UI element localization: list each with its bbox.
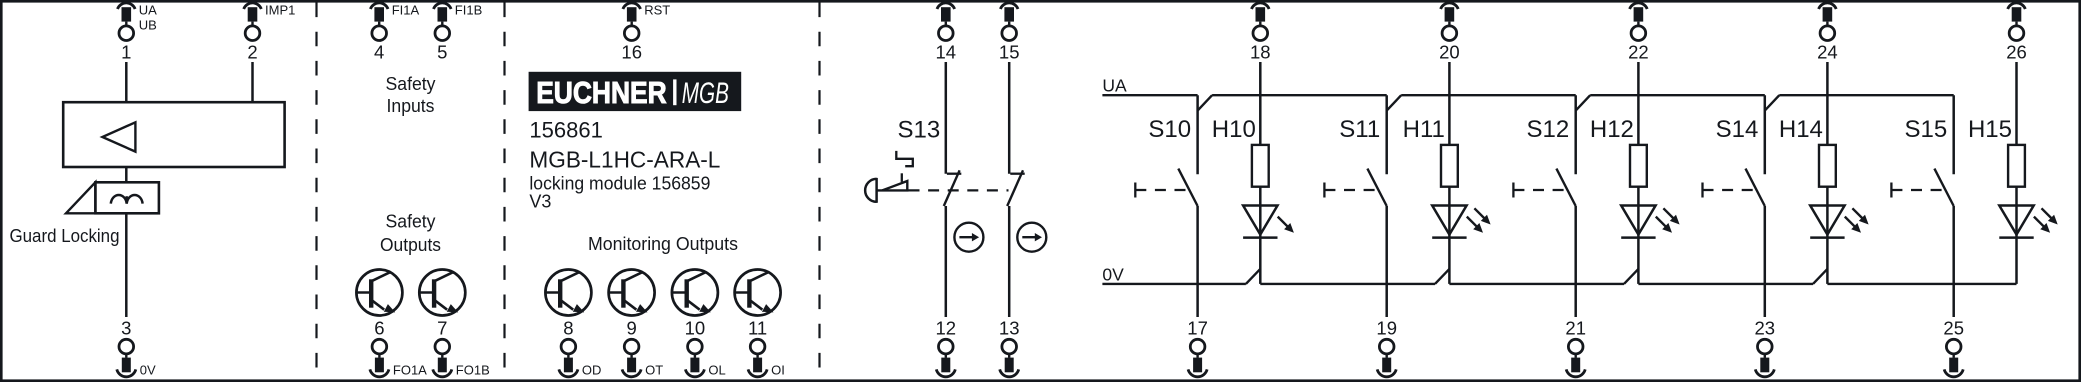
terminal 21 (bottom plug-in connector) [1565,317,1586,376]
wire jog UA rail at S10 [1198,95,1213,110]
terminal 9 (bottom plug-in connector, label OT) [622,317,663,377]
svg-text:S14: S14 [1716,116,1759,143]
svg-text:V3: V3 [529,192,551,212]
label H10 [1212,116,1256,143]
wire jog 0V rail at H14 [1813,269,1827,284]
label H14 [1779,116,1823,143]
svg-text:8: 8 [563,317,573,338]
transistor monitoring output OT (terminal 9) [609,270,655,316]
svg-text:9: 9 [626,317,636,338]
svg-text:17: 17 [1187,317,1208,338]
transistor safety output FO1A (terminal 6) [356,270,402,316]
wire resistor to LED H10 [1259,187,1262,284]
wire 0V rail segment after H11 [1449,283,1624,285]
actuator triangle symbol in interlock block [102,122,135,151]
svg-text:UB: UB [139,17,157,32]
switch S12 (NO contact blade) [1556,169,1575,206]
svg-text:OI: OI [771,363,785,378]
wire UA rail to switch S14 [1764,95,1767,174]
svg-text:FO1B: FO1B [456,363,490,378]
terminal 16 (top plug-in connector, labels RST) [621,2,670,62]
transistor monitoring output OL (terminal 10) [672,270,718,316]
terminal 19 (bottom plug-in connector) [1376,317,1397,376]
svg-text:2: 2 [247,42,257,63]
wire 0V rail segment after H12 [1638,283,1813,285]
section divider (dashed) [818,3,820,380]
latching symbol S13 [896,151,913,166]
transistor safety output FO1B (terminal 7) [419,270,465,316]
wire resistor to LED H15 [2015,187,2018,284]
svg-text:S15: S15 [1904,116,1947,143]
guard locking solenoid symbol [66,182,159,213]
label S10 [1148,116,1191,143]
terminal 5 (top plug-in connector, labels FI1B) [434,2,483,62]
svg-text:22: 22 [1628,42,1649,63]
svg-text:19: 19 [1376,317,1397,338]
svg-text:26: 26 [2006,42,2027,63]
svg-text:14: 14 [936,42,957,63]
label S15 [1904,116,1947,143]
actuation line S14 (dashed with tick) [1703,183,1756,198]
wire resistor to LED H11 [1448,187,1451,284]
wire terminal 20 to resistor H11 [1448,62,1451,145]
label Safety Inputs [386,73,437,116]
wire UA rail segment after S14 [1779,94,1953,96]
interlock block (locking module body) [63,102,284,167]
label H11 [1403,116,1445,143]
transistor monitoring output OI (terminal 11) [735,270,781,316]
svg-text:S10: S10 [1148,116,1191,143]
svg-text:7: 7 [437,317,447,338]
emergency stop actuator S13 (mushroom head) [865,178,876,203]
svg-text:13: 13 [999,317,1020,338]
svg-text:Guard Locking: Guard Locking [10,225,120,246]
wire 0V rail (left segment) [1102,283,1246,285]
switch S10 (NO contact blade) [1178,169,1197,206]
terminal 10 (bottom plug-in connector, label OL) [685,317,726,377]
wire switch S12 to terminal 21 [1574,206,1577,317]
wire terminal 15 to contact [1008,62,1011,174]
terminal 12 (bottom plug-in connector) [936,317,957,376]
wire UA rail to switch S11 [1385,95,1388,174]
svg-text:OT: OT [645,363,663,378]
wire resistor to LED H12 [1637,187,1640,284]
wire switch S15 to terminal 25 [1952,206,1955,317]
NC contact S13.2 (terminals 15-13) [1007,170,1024,206]
svg-text:20: 20 [1439,42,1460,63]
label S11 [1339,116,1380,143]
label V3 [529,192,551,212]
EUCHNER MGB logo [529,72,742,111]
terminal 15 (top plug-in connector) [999,3,1020,63]
svg-text:RST: RST [644,2,670,17]
resistor H14 [1819,145,1836,187]
svg-text:H10: H10 [1212,116,1256,143]
wire interlock block to guard locking solenoid [125,167,128,182]
actuation line S13 (dashed) [909,189,1009,191]
terminal 11 (bottom plug-in connector, label OI) [748,317,785,377]
svg-text:FI1A: FI1A [392,2,420,17]
svg-text:MGB: MGB [682,77,729,110]
svg-text:0V: 0V [140,363,156,378]
terminal 6 (bottom plug-in connector, label FO1A) [370,317,427,377]
svg-text:25: 25 [1943,317,1964,338]
wire UA rail to switch S15 [1952,95,1955,174]
svg-text:3: 3 [121,317,131,338]
wire UA rail segment after S12 [1590,94,1765,96]
switch S15 (NO contact blade) [1934,169,1953,206]
actuation line S11 (dashed with tick) [1324,183,1377,198]
svg-text:IMP1: IMP1 [265,2,295,17]
wire terminal 22 to resistor H12 [1637,62,1640,145]
wire terminal 24 to resistor H14 [1826,62,1829,145]
switch S14 (NO contact blade) [1746,169,1765,206]
label MGB-L1HC-ARA-L [529,146,720,172]
svg-text:21: 21 [1565,317,1586,338]
wire jog UA rail at S14 [1765,95,1780,110]
wire jog 0V rail at H10 [1246,269,1260,284]
wire switch S10 to terminal 17 [1196,206,1199,317]
wire UA rail segment after S10 [1212,94,1387,96]
svg-text:Inputs: Inputs [387,95,435,116]
terminal 17 (bottom plug-in connector) [1187,317,1208,376]
svg-text:6: 6 [374,317,384,338]
svg-text:MGB-L1HC-ARA-L: MGB-L1HC-ARA-L [529,146,720,172]
wire UA rail (left segment) [1102,94,1197,96]
svg-text:156861: 156861 [529,118,602,143]
terminal 14 (top plug-in connector) [936,3,957,63]
terminal 25 (bottom plug-in connector) [1943,317,1964,376]
svg-text:locking module 156859: locking module 156859 [529,174,710,194]
svg-text:23: 23 [1755,317,1776,338]
LED H11 [1432,206,1490,238]
wire contact to terminal 12 [945,206,948,317]
wire UA rail segment after S11 [1401,94,1576,96]
wire jog UA rail at S11 [1387,95,1402,110]
svg-text:H14: H14 [1779,116,1823,143]
actuation line S10 (dashed with tick) [1135,183,1188,198]
terminal 23 (bottom plug-in connector) [1755,317,1776,376]
svg-text:OD: OD [582,363,602,378]
label 156861 [529,118,602,143]
terminal 7 (bottom plug-in connector, label FO1B) [433,317,490,377]
section divider (dashed) [315,3,317,380]
actuation line S12 (dashed with tick) [1513,183,1566,198]
terminal 4 (top plug-in connector, labels FI1A) [370,2,419,62]
wire guard locking solenoid to terminal 3 [125,213,128,317]
label Safety Outputs [380,210,441,254]
svg-text:FI1B: FI1B [455,2,482,17]
wire 0V rail segment after H10 [1260,283,1435,285]
svg-text:Outputs: Outputs [380,234,441,255]
svg-text:S11: S11 [1339,116,1380,143]
terminal 18 (top plug-in connector) [1250,3,1271,63]
svg-text:EUCHNER: EUCHNER [536,75,667,110]
actuator stem and wedge S13 [877,181,909,190]
direction arrow circle (contact 12) [954,223,983,252]
LED H15 [1999,206,2057,238]
LED H14 [1810,206,1868,238]
wire jog 0V rail at H11 [1435,269,1449,284]
wire resistor to LED H14 [1826,187,1829,284]
terminal 20 (top plug-in connector) [1439,3,1460,63]
svg-text:H12: H12 [1590,116,1634,143]
svg-text:UA: UA [139,2,157,17]
svg-text:24: 24 [1817,42,1838,63]
wire terminal 18 to resistor H10 [1259,62,1262,145]
svg-text:12: 12 [936,317,957,338]
wire terminal 26 to resistor H15 [2015,62,2018,145]
svg-text:UA: UA [1102,76,1127,96]
terminal 3 (bottom plug-in connector, label 0V) [117,317,156,377]
resistor H12 [1630,145,1647,187]
actuation link latch to contacts (dashed) [901,173,903,182]
label Monitoring Outputs [588,233,738,254]
label Guard Locking [10,225,120,246]
svg-text:4: 4 [374,42,384,63]
svg-text:H15: H15 [1968,116,2012,143]
svg-text:Monitoring Outputs: Monitoring Outputs [588,233,738,254]
wire terminal 1 to interlock block [125,62,128,102]
node UA rail label [1102,76,1127,96]
resistor H15 [2008,145,2025,187]
terminal 24 (top plug-in connector) [1817,3,1838,63]
resistor H11 [1441,145,1458,187]
svg-text:Safety: Safety [386,73,437,94]
wire contact to terminal 13 [1008,206,1011,317]
label S13 [898,117,941,144]
LED H10 [1243,206,1294,238]
node 0V rail label [1102,265,1124,285]
terminal 22 (top plug-in connector) [1628,3,1649,63]
svg-text:S12: S12 [1526,116,1569,143]
terminal 13 (bottom plug-in connector) [999,317,1020,376]
LED H12 [1621,206,1679,238]
svg-text:0V: 0V [1102,265,1124,285]
actuation line S15 (dashed with tick) [1891,183,1944,198]
transistor monitoring output OD (terminal 8) [545,270,591,316]
svg-text:S13: S13 [898,117,941,144]
direction arrow circle (contact 13) [1017,223,1046,252]
terminal 8 (bottom plug-in connector, label OD) [559,317,602,377]
terminal 1 (top plug-in connector, labels UA/UB) [118,2,158,62]
NC contact S13.1 (terminals 14-12) [944,170,962,206]
label H12 [1590,116,1634,143]
svg-text:OL: OL [708,363,725,378]
svg-text:1: 1 [121,42,131,63]
section divider (dashed) [503,3,505,380]
wire terminal 14 to contact [945,62,948,174]
svg-text:5: 5 [437,42,447,63]
resistor H10 [1252,145,1269,187]
svg-text:16: 16 [621,42,642,63]
svg-text:18: 18 [1250,42,1271,63]
svg-text:11: 11 [748,317,767,338]
switch S11 (NO contact blade) [1367,169,1386,206]
label S12 [1526,116,1569,143]
label S14 [1716,116,1759,143]
wire terminal 2 to interlock block [251,62,254,102]
wire jog 0V rail at H12 [1624,269,1638,284]
svg-text:H11: H11 [1403,116,1445,143]
label H15 [1968,116,2012,143]
terminal 26 (top plug-in connector) [2006,3,2027,63]
wire jog UA rail at S12 [1576,95,1591,110]
terminal 2 (top plug-in connector, labels IMP1) [244,2,296,62]
svg-text:FO1A: FO1A [393,363,427,378]
wire UA rail to switch S12 [1574,95,1577,174]
wire UA rail to switch S10 [1196,95,1199,174]
svg-text:10: 10 [685,317,706,338]
label locking module 156859 [529,174,710,194]
svg-text:15: 15 [999,42,1020,63]
svg-text:Safety: Safety [386,210,437,231]
wire 0V rail segment after H14 [1827,283,2016,285]
wire switch S14 to terminal 23 [1764,206,1767,317]
wire switch S11 to terminal 19 [1385,206,1388,317]
